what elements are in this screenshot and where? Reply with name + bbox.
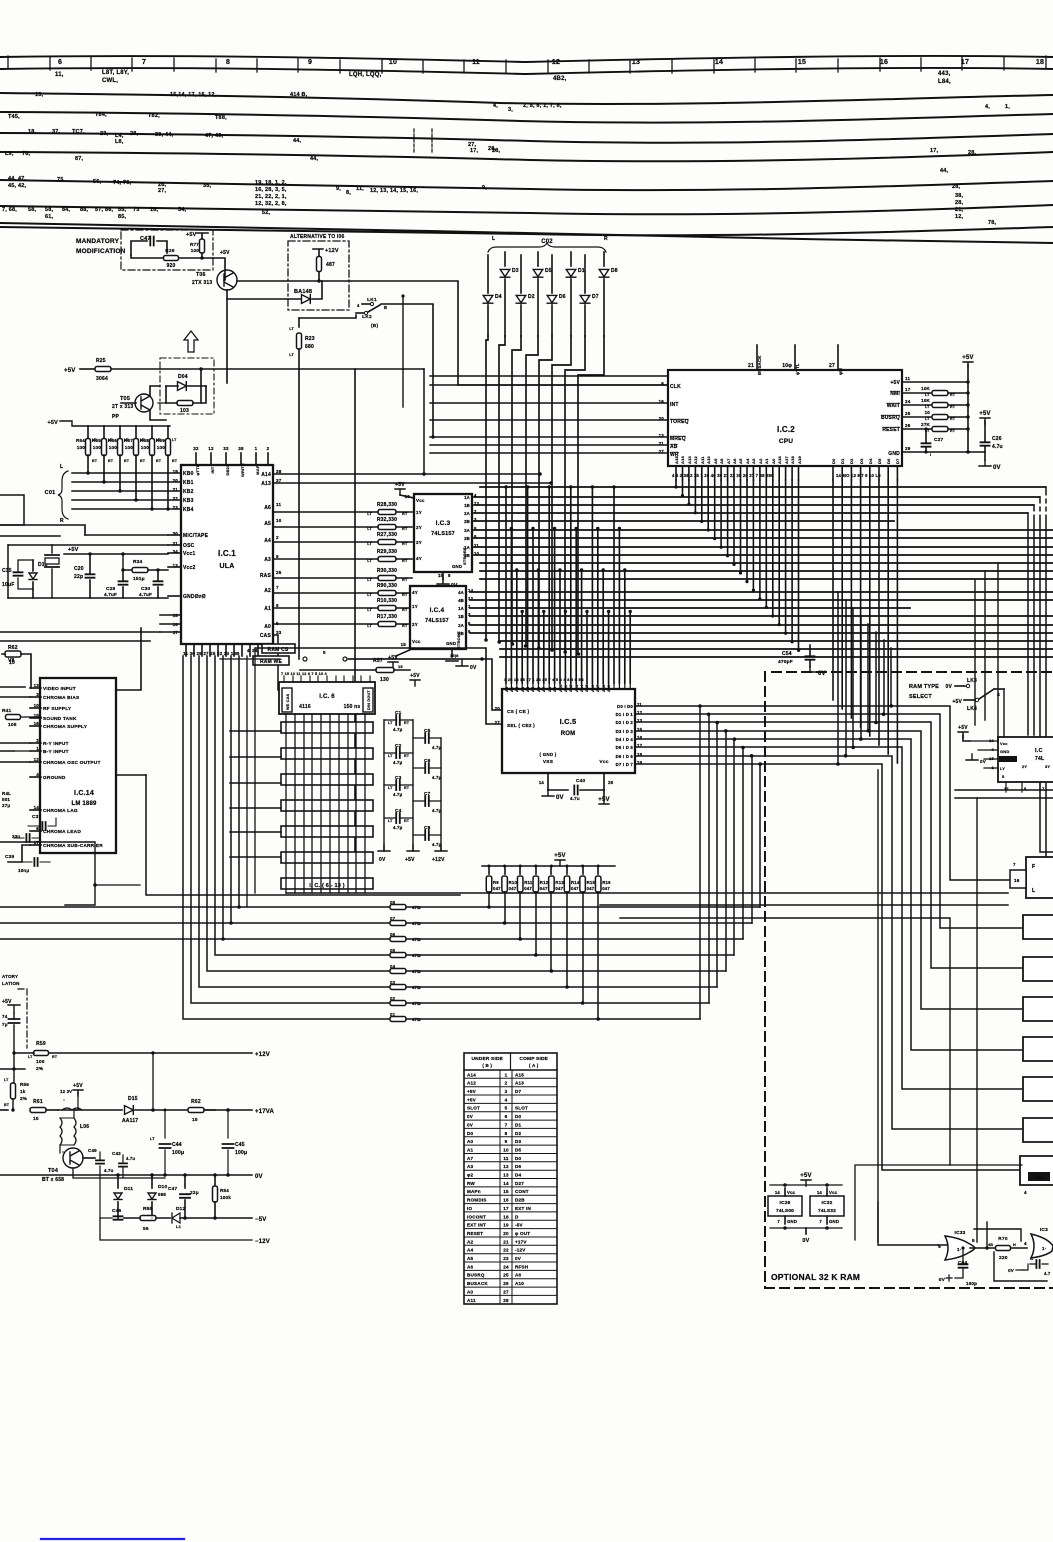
svg-text:0V: 0V	[802, 1238, 809, 1244]
svg-text:LT: LT	[367, 542, 372, 546]
wire supply left joins	[99, 1178, 101, 1218]
resistor pullup 10K	[902, 404, 932, 406]
svg-text:CHROMA SUB-CARRIER: CHROMA SUB-CARRIER	[43, 843, 103, 849]
svg-text:4: 4	[1024, 1241, 1027, 1246]
svg-text:RT: RT	[402, 578, 408, 582]
svg-text:047: 047	[509, 886, 517, 891]
svg-text:28,: 28,	[130, 131, 139, 137]
svg-text:58,: 58,	[28, 207, 37, 213]
svg-text:Vcc: Vcc	[416, 498, 425, 503]
svg-text:GND: GND	[1000, 749, 1010, 754]
svg-text:+12V: +12V	[325, 248, 339, 254]
diode D1	[570, 252, 572, 266]
node RAM CS label	[262, 644, 295, 653]
svg-text:4.7μ: 4.7μ	[393, 760, 403, 765]
svg-text:WRITE: WRITE	[240, 463, 245, 477]
svg-text:B: B	[384, 305, 387, 310]
svg-text:-12V: -12V	[515, 1248, 526, 1253]
svg-text:D7 I D 7: D7 I D 7	[616, 762, 634, 767]
svg-text:4: 4	[1024, 1190, 1027, 1195]
svg-text:KB3: KB3	[183, 498, 194, 504]
svg-text:56,: 56,	[93, 179, 102, 185]
svg-text:+5V: +5V	[800, 1173, 811, 1179]
svg-text:KB2: KB2	[183, 489, 194, 495]
svg-text:D5 I D 5: D5 I D 5	[616, 745, 634, 750]
svg-text:D10: D10	[158, 1184, 168, 1190]
svg-text:R14: R14	[571, 880, 580, 885]
svg-text:26: 26	[905, 423, 911, 428]
svg-text:4.7μ: 4.7μ	[393, 825, 403, 830]
svg-text:78,: 78,	[22, 151, 31, 157]
svg-text:4.7uF: 4.7uF	[139, 592, 152, 597]
op optional RAM chip 3	[1023, 997, 1053, 1021]
svg-text:33: 33	[223, 446, 229, 451]
svg-text:A3: A3	[467, 1164, 474, 1169]
wire KB2	[72, 490, 181, 492]
svg-text:4.7: 4.7	[1044, 1271, 1051, 1276]
svg-text:A14: A14	[467, 1072, 476, 1077]
svg-text:EXT INT: EXT INT	[467, 1223, 486, 1228]
svg-text:DIN DOUT: DIN DOUT	[367, 690, 371, 710]
svg-text:R17,330: R17,330	[377, 614, 397, 620]
op IC.11 RAM row	[281, 826, 373, 837]
svg-text:4A: 4A	[458, 590, 464, 595]
svg-text:A1: A1	[764, 458, 769, 464]
svg-text:GND: GND	[888, 451, 900, 457]
wire data riser 0	[699, 706, 701, 1019]
svg-text:D3: D3	[512, 268, 519, 274]
svg-text:10: 10	[925, 410, 931, 415]
svg-text:A6: A6	[515, 1273, 522, 1278]
svg-text:D1: D1	[840, 458, 845, 464]
svg-text:L1: L1	[176, 1224, 182, 1229]
svg-text:27,: 27,	[158, 188, 167, 194]
svg-text:A4: A4	[526, 686, 530, 692]
svg-text:A7: A7	[467, 1156, 474, 1161]
svg-text:LM 1889: LM 1889	[71, 801, 97, 807]
svg-text:D6: D6	[886, 458, 891, 464]
svg-text:NMI: NMI	[890, 391, 900, 397]
wire R69 to KB4	[167, 455, 169, 509]
svg-text:13,: 13,	[35, 92, 44, 98]
svg-text:BT: BT	[156, 459, 162, 463]
svg-text:D3 I D 3: D3 I D 3	[616, 729, 634, 734]
svg-text:+5V: +5V	[405, 857, 415, 863]
resistor R87	[317, 257, 322, 272]
svg-text:I.C.14: I.C.14	[74, 790, 94, 797]
wire right bundle down to RAM select	[837, 592, 839, 764]
svg-text:10: 10	[276, 518, 282, 523]
svg-text:0V: 0V	[945, 684, 952, 690]
resistor R24	[177, 401, 193, 406]
svg-text:AA117: AA117	[122, 1118, 138, 1124]
svg-text:RF SUPPLY: RF SUPPLY	[43, 706, 72, 712]
wire RAM control lines to optional bank	[600, 904, 1008, 906]
svg-text:27μ: 27μ	[2, 803, 10, 808]
svg-text:INT: INT	[210, 466, 215, 473]
power IC.4	[396, 648, 414, 656]
svg-text:2: 2	[276, 535, 279, 540]
wire KB column 0	[486, 336, 488, 640]
svg-text:4: 4	[357, 303, 360, 308]
wire T06 base from mod box	[213, 258, 225, 280]
svg-text:BUSRQ: BUSRQ	[881, 415, 900, 421]
svg-text:11: 11	[276, 502, 281, 507]
svg-text:C40: C40	[576, 778, 586, 784]
svg-text:+5V: +5V	[64, 368, 75, 374]
svg-text:12, 13, 14, 15, 16,: 12, 13, 14, 15, 16,	[370, 188, 418, 194]
svg-text:25: 25	[503, 1273, 509, 1278]
svg-text:R27,330: R27,330	[377, 532, 397, 538]
svg-text:L: L	[492, 236, 495, 242]
svg-text:C: C	[1030, 1256, 1034, 1261]
svg-text:9: 9	[505, 1139, 508, 1144]
svg-text:1,: 1,	[1005, 104, 1010, 110]
svg-text:A10: A10	[559, 684, 563, 692]
svg-text:R26: R26	[165, 248, 175, 254]
svg-text:+5V: +5V	[962, 355, 973, 361]
svg-text:C39: C39	[5, 854, 15, 860]
resistor R67	[135, 426, 137, 438]
svg-text:7: 7	[142, 59, 146, 66]
svg-text:0V: 0V	[467, 1122, 474, 1127]
svg-text:ULA: ULA	[220, 563, 235, 570]
wire KB0	[72, 472, 181, 474]
svg-text:R: R	[604, 236, 608, 242]
svg-text:A15: A15	[674, 455, 679, 464]
svg-text:C01: C01	[45, 490, 56, 496]
svg-text:74LS32: 74LS32	[818, 1208, 836, 1214]
svg-text:100μ: 100μ	[235, 1150, 247, 1156]
svg-text:KB0: KB0	[183, 471, 194, 477]
wire KB4	[72, 508, 181, 510]
svg-text:02: 02	[390, 996, 396, 1001]
wire extra verticals below IC.1	[247, 649, 255, 907]
wire KB column 1	[499, 336, 505, 642]
resistor R64	[87, 426, 89, 438]
wire chroma subcarrier loop	[8, 845, 30, 862]
svg-text:2A: 2A	[464, 511, 470, 516]
wire IC.1 top pins	[195, 453, 197, 465]
svg-text:3Y: 3Y	[416, 540, 422, 545]
svg-text:8: 8	[505, 1131, 508, 1136]
svg-text:OSC: OSC	[183, 543, 195, 549]
svg-text:R4L: R4L	[2, 791, 11, 796]
svg-text:+5V: +5V	[388, 655, 398, 661]
svg-text:D8: D8	[611, 268, 618, 274]
svg-text:7: 7	[819, 1219, 822, 1224]
svg-text:A17: A17	[784, 455, 789, 464]
svg-text:501: 501	[2, 797, 10, 802]
svg-text:MAPn: MAPn	[467, 1189, 481, 1194]
svg-text:LT: LT	[367, 624, 372, 628]
svg-text:16, 28, 3, 5,: 16, 28, 3, 5,	[255, 187, 287, 193]
resistor data series 3	[390, 985, 406, 990]
svg-text:105: 105	[8, 722, 17, 728]
svg-text:7: 7	[505, 1122, 508, 1127]
svg-text:R59: R59	[36, 1041, 46, 1047]
svg-text:12: 12	[552, 59, 560, 66]
wire IC.6 top pins	[283, 676, 285, 682]
node labels below ruler	[55, 70, 951, 85]
svg-text:CHROMA LEAD: CHROMA LEAD	[43, 829, 81, 835]
svg-text:TOREQ: TOREQ	[670, 419, 689, 425]
svg-text:+5V: +5V	[220, 250, 230, 256]
svg-text:RT: RT	[52, 1055, 58, 1059]
svg-text:D2B: D2B	[515, 1198, 525, 1203]
svg-text:44,: 44,	[940, 168, 949, 174]
wire CAS to RAM	[273, 635, 278, 690]
svg-text:LT: LT	[925, 405, 930, 409]
svg-text:4.7u: 4.7u	[992, 444, 1003, 450]
svg-text:17,: 17,	[930, 148, 939, 154]
svg-text:44, 47,: 44, 47,	[8, 176, 26, 182]
ground 0V RAM logic	[770, 1227, 842, 1229]
svg-text:B-Y INPUT: B-Y INPUT	[43, 749, 69, 755]
svg-text:R9: R9	[493, 880, 499, 885]
svg-text:22p: 22p	[74, 574, 83, 580]
wire bus line 7	[0, 227, 1053, 235]
wire osc cluster rails	[8, 544, 168, 546]
svg-text:+12V: +12V	[432, 857, 445, 863]
svg-text:0V: 0V	[470, 665, 477, 671]
svg-text:D27: D27	[515, 1181, 524, 1186]
svg-text:4116: 4116	[299, 704, 311, 710]
svg-text:MANDATORY: MANDATORY	[76, 238, 120, 245]
svg-text:15: 15	[192, 1117, 198, 1123]
diode D7	[584, 255, 586, 293]
crystal X1	[51, 545, 53, 553]
wire KB column 3	[526, 336, 538, 646]
svg-text:C20: C20	[74, 566, 84, 572]
wire KB column 2	[512, 336, 521, 644]
svg-text:Vcc: Vcc	[599, 759, 608, 765]
svg-text:047: 047	[555, 886, 563, 891]
svg-text:BUSACK: BUSACK	[757, 355, 762, 375]
svg-text:1·: 1·	[1042, 1246, 1046, 1251]
wire KB column 7	[578, 336, 604, 654]
svg-text:100: 100	[93, 445, 102, 450]
svg-text:A4: A4	[264, 538, 271, 544]
svg-text:84,: 84,	[62, 207, 71, 213]
svg-text:A13: A13	[687, 455, 692, 464]
pin CPU φTTL	[794, 345, 796, 370]
svg-text:DB23: DB23	[225, 464, 230, 476]
svg-text:A3: A3	[521, 687, 525, 692]
wire left edge MIC/OSC lines	[0, 525, 85, 536]
svg-text:A13: A13	[261, 481, 271, 487]
svg-text:A6: A6	[537, 687, 541, 692]
svg-text:27,: 27,	[468, 142, 477, 148]
svg-text:IC32: IC32	[822, 1200, 833, 1206]
svg-text:22: 22	[503, 1248, 509, 1253]
svg-text:78,: 78,	[988, 220, 997, 226]
resistor R15	[582, 866, 584, 874]
resistor R68	[151, 426, 153, 438]
svg-text:4B2,: 4B2,	[553, 76, 567, 82]
dash-dot box mandatory modification	[121, 230, 213, 270]
svg-text:CHROMA SUPPLY: CHROMA SUPPLY	[43, 724, 88, 730]
wire bus line 8 (schematic top boundary)	[0, 223, 1053, 243]
svg-text:37,: 37,	[52, 129, 61, 135]
svg-text:11: 11	[503, 1156, 509, 1161]
ground IC.4	[446, 649, 458, 661]
diode D6	[551, 255, 553, 293]
svg-text:4: 4	[505, 1097, 508, 1102]
svg-text:12,: 12,	[955, 214, 964, 220]
svg-text:+5V: +5V	[467, 1097, 477, 1102]
svg-text:RT: RT	[402, 542, 408, 546]
resistor data series 6	[390, 937, 406, 942]
svg-text:8,: 8,	[346, 190, 351, 196]
svg-text:RFSH: RFSH	[515, 1264, 529, 1269]
wire bus line 4	[0, 152, 1053, 161]
svg-text:T04: T04	[48, 1168, 59, 1174]
svg-text:BUSRQ: BUSRQ	[467, 1273, 485, 1278]
svg-text:T06: T06	[196, 272, 206, 278]
svg-text:7: 7	[1013, 862, 1016, 867]
wire CPU bottom pin stubs	[675, 466, 677, 480]
resistor R55	[140, 1216, 156, 1221]
svg-text:A10: A10	[515, 1281, 524, 1286]
svg-text:R61: R61	[33, 1099, 43, 1105]
svg-text:1Y: 1Y	[412, 604, 418, 609]
capacitor C44	[164, 1109, 166, 1111]
svg-text:A2: A2	[515, 687, 519, 692]
svg-text:1B: 1B	[464, 503, 470, 508]
svg-text:25: 25	[276, 570, 282, 575]
svg-text:130: 130	[380, 677, 389, 683]
svg-text:1Y: 1Y	[416, 510, 422, 515]
svg-text:11,: 11,	[356, 186, 364, 192]
svg-text:D2: D2	[849, 458, 854, 464]
svg-text:C27: C27	[934, 437, 944, 443]
svg-text:D6 I D 6: D6 I D 6	[616, 754, 634, 759]
op IC.2 CPU box	[668, 370, 902, 466]
svg-text:A16: A16	[777, 455, 782, 464]
svg-text:GND: GND	[452, 564, 462, 569]
svg-text:103: 103	[180, 408, 189, 414]
svg-text:44,: 44,	[293, 138, 302, 144]
wire KB3	[72, 499, 181, 501]
svg-text:23: 23	[503, 1256, 509, 1261]
svg-text:10uF: 10uF	[2, 582, 14, 588]
op IC32 74LS32 power	[810, 1196, 844, 1216]
svg-text:D5: D5	[515, 1147, 522, 1152]
svg-text:3Y: 3Y	[1045, 764, 1050, 769]
svg-text:14: 14	[715, 59, 723, 66]
svg-text:COMP SIDE: COMP SIDE	[519, 1056, 548, 1062]
svg-text:100: 100	[125, 445, 134, 450]
resistor data series 1	[390, 1017, 406, 1022]
svg-text:AB: AB	[670, 444, 678, 450]
svg-text:LT: LT	[925, 393, 930, 397]
svg-text:87,: 87,	[75, 156, 84, 162]
svg-text:2TX 313: 2TX 313	[192, 280, 212, 286]
wire right-edge bus elbows	[1046, 487, 1053, 868]
svg-text:4B: 4B	[988, 1243, 993, 1247]
wire CPU bottom verticals into mesh	[675, 480, 677, 487]
svg-text:595: 595	[158, 1192, 166, 1197]
svg-text:D7: D7	[895, 458, 900, 464]
svg-text:15: 15	[503, 1189, 509, 1194]
svg-text:VSS: VSS	[543, 759, 554, 765]
op IC multiplexer partial	[998, 737, 1053, 782]
wire R66 to KB2	[119, 455, 121, 491]
wire data riser 4	[733, 739, 735, 955]
svg-text:3B: 3B	[464, 553, 470, 558]
svg-text:12: 12	[503, 1164, 509, 1169]
wire IC.1 data 4	[215, 656, 390, 955]
wire data riser 6	[751, 756, 753, 923]
svg-text:R23: R23	[305, 336, 315, 342]
node RAM WE label	[253, 656, 289, 665]
svg-text:I.C: I.C	[1035, 748, 1043, 754]
svg-text:T45,: T45,	[8, 114, 20, 120]
op IC.9 RAM row	[281, 774, 373, 785]
resistor R16	[597, 866, 599, 874]
svg-text:15: 15	[798, 59, 806, 66]
svg-text:4.7μ: 4.7μ	[432, 808, 442, 813]
op IC.1 ULA box	[181, 465, 273, 644]
svg-text:10: 10	[503, 1147, 509, 1152]
svg-text:A2: A2	[264, 588, 271, 594]
link test points	[220, 658, 280, 660]
svg-text:( GND ): ( GND )	[540, 752, 557, 757]
svg-text:A10: A10	[706, 455, 711, 464]
svg-text:0V: 0V	[993, 465, 1001, 471]
svg-text:100: 100	[157, 445, 166, 450]
svg-text:12 3V: 12 3V	[60, 1089, 72, 1094]
svg-text:R34: R34	[133, 559, 143, 565]
svg-text:28,: 28,	[952, 184, 961, 190]
svg-text:RT: RT	[402, 559, 408, 563]
svg-text:R10: R10	[509, 880, 518, 885]
svg-text:74LS157: 74LS157	[431, 531, 455, 537]
svg-text:4: 4	[247, 648, 250, 653]
svg-text:23: 23	[173, 505, 179, 510]
svg-text:+5V: +5V	[410, 673, 420, 679]
svg-text:Vcc1: Vcc1	[183, 551, 195, 557]
svg-text:2Y: 2Y	[416, 525, 422, 530]
diode D5	[537, 252, 539, 266]
svg-text:03: 03	[390, 980, 396, 985]
wire +12V drop	[152, 1053, 154, 1110]
op IC.14 LM1889 box	[40, 678, 116, 853]
svg-text:7: 7	[276, 585, 279, 590]
svg-text:+5V: +5V	[958, 725, 968, 731]
svg-text:L8,: L8,	[115, 139, 124, 145]
diode D2	[520, 255, 522, 293]
svg-text:D3: D3	[859, 458, 864, 464]
svg-text:R62: R62	[191, 1099, 201, 1105]
svg-text:2: 2	[505, 1081, 508, 1086]
svg-text:100k: 100k	[220, 1195, 231, 1200]
op IC.3 74LS157	[414, 494, 472, 572]
svg-text:A19: A19	[797, 455, 802, 464]
svg-text:29: 29	[905, 446, 911, 451]
svg-text:2B: 2B	[458, 631, 464, 636]
svg-text:R62: R62	[8, 645, 18, 651]
svg-text:I.C.2: I.C.2	[777, 425, 795, 434]
svg-text:1·: 1·	[957, 1247, 961, 1252]
op optional RAM chip 4	[1023, 1037, 1053, 1061]
svg-text:+5V: +5V	[554, 853, 565, 859]
svg-text:4.7u: 4.7u	[104, 1168, 114, 1173]
svg-text:73: 73	[133, 207, 140, 213]
svg-text:C54: C54	[782, 651, 792, 657]
svg-text:LT: LT	[388, 754, 393, 758]
